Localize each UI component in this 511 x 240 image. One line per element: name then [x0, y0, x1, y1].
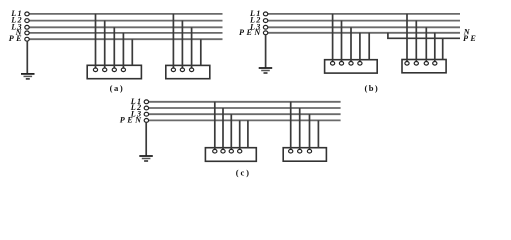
wire N tap to box2 (b): [434, 33, 436, 62]
wire PE (a): [29, 38, 222, 40]
terminal circle L2 (b): [263, 19, 267, 23]
load box 2 (b): [402, 60, 446, 73]
terminal circle box2 pin1 (c): [289, 149, 293, 153]
terminal circle box1 pin2 (b): [339, 62, 343, 66]
terminal circle L2 (a): [25, 19, 29, 23]
wire N tap to box1 (a): [122, 33, 124, 68]
wire PEN (PE) tap to box1 enclosure (b): [368, 33, 370, 60]
terminal circle box1 pin2 (a): [103, 68, 107, 72]
earthing conductor wire (b): [265, 35, 267, 68]
terminal circle L1 (b): [263, 12, 267, 16]
terminal circle box1 pin3 (a): [112, 68, 116, 72]
wire L2 tap to box1 (c): [222, 108, 224, 150]
terminal circle box1 pin3 (c): [229, 149, 233, 153]
terminal circle PEN (b): [263, 31, 267, 35]
wire PEN (N) tap to box1 (b): [359, 33, 361, 62]
load box 2 (c): [283, 148, 326, 162]
terminal circle box1 pin3 (b): [349, 62, 353, 66]
ground symbol (a): [21, 74, 35, 79]
terminal circle L3 (a): [25, 25, 29, 29]
wire L2 (b): [268, 20, 460, 22]
wire L2 (a): [29, 20, 222, 22]
wire L3 (b): [268, 26, 460, 28]
wire PE split from PEN (b): [388, 33, 460, 39]
wire L1 tap to box1 (c): [214, 102, 216, 150]
wire PE tap to box2 enclosure (b): [442, 38, 444, 59]
terminal circle L3 (c): [144, 112, 148, 116]
svg-text:(b): (b): [365, 83, 379, 93]
terminal circle N (a): [25, 31, 29, 35]
terminal circle box2 pin2 (c): [298, 149, 302, 153]
ground symbol (c): [139, 156, 153, 161]
svg-text:(a): (a): [110, 83, 124, 93]
svg-text:PE: PE: [463, 34, 476, 43]
terminal circle box2 pin1 (b): [405, 62, 409, 66]
wire L1 tap to box1 (a): [95, 14, 97, 68]
wire L1 tap to box1 (b): [332, 14, 334, 62]
terminal circle box2 pin3 (b): [424, 62, 428, 66]
load box 1 (b): [325, 60, 378, 73]
wire PE tap to box1 enclosure (a): [131, 39, 133, 65]
terminal circle box1 pin4 (c): [238, 149, 242, 153]
load box 1 (a): [87, 65, 141, 78]
wire L1 tap to box2 (a): [172, 14, 174, 68]
wire L3 tap to box1 (a): [113, 27, 115, 68]
wire L3 (c): [149, 113, 341, 115]
terminal circle L3 (b): [263, 25, 267, 29]
wire L3 tap to box2 (b): [425, 27, 427, 61]
terminal circle box2 pin3 (a): [190, 68, 194, 72]
wire L2 tap to box2 (a): [181, 21, 183, 68]
earthing conductor wire (c): [145, 122, 147, 156]
wire L3 (a): [29, 26, 222, 28]
terminal circle L1 (a): [25, 12, 29, 16]
wire L1 (c): [149, 101, 341, 103]
wire L2 tap to box1 (b): [341, 21, 343, 62]
wire PEN (N) tap to box1 (c): [239, 120, 241, 149]
svg-text:(c): (c): [236, 168, 250, 178]
wire L1 tap to box2 (b): [406, 14, 408, 61]
wire PEN (PE) tap to box1 enclosure (c): [247, 120, 249, 147]
svg-text:PEN: PEN: [239, 28, 261, 37]
terminal circle box1 pin1 (b): [331, 62, 335, 66]
load box 2 (a): [166, 65, 210, 78]
ground symbol (b): [259, 68, 273, 73]
terminal circle box2 pin4 (b): [433, 62, 437, 66]
terminal circle PE (a): [25, 37, 29, 41]
svg-text:PE: PE: [9, 34, 22, 43]
wire L2 tap to box2 (c): [299, 108, 301, 150]
terminal circle box2 pin2 (b): [414, 62, 418, 66]
wire L2 (c): [149, 107, 341, 109]
terminal circle L1 (c): [144, 100, 148, 104]
terminal circle box1 pin2 (c): [221, 149, 225, 153]
terminal circle box2 pin1 (a): [171, 68, 175, 72]
terminal circle box1 pin4 (a): [121, 68, 125, 72]
wire L1 (a): [29, 13, 222, 15]
wire L3 tap to box1 (b): [350, 27, 352, 61]
wire L2 tap to box2 (b): [415, 21, 417, 62]
wire L1 (b): [268, 13, 460, 15]
terminal circle box2 pin3 (c): [307, 149, 311, 153]
terminal circle box2 pin2 (a): [180, 68, 184, 72]
wire L1 tap to box2 (c): [290, 102, 292, 150]
wire L3 tap to box2 (a): [191, 27, 193, 68]
earthing conductor wire (a): [26, 41, 28, 74]
wire PEN (c): [149, 119, 341, 121]
wire L3 tap to box1 (c): [230, 114, 232, 149]
terminal circle box1 pin4 (b): [358, 62, 362, 66]
terminal circle L2 (c): [144, 106, 148, 110]
terminal circle box1 pin1 (a): [93, 68, 97, 72]
terminal circle PEN (c): [144, 119, 148, 123]
wire N (a): [29, 32, 222, 34]
wire L2 tap to box1 (a): [104, 21, 106, 68]
terminal circle box1 pin1 (c): [213, 149, 217, 153]
svg-text:PEN: PEN: [120, 116, 142, 125]
wire PEN continuing as N (b): [268, 32, 460, 34]
load box 1 (c): [205, 148, 256, 162]
wire PEN tap to box2 enclosure (c): [317, 120, 319, 147]
wire PE tap to box2 enclosure (a): [200, 39, 202, 65]
wire L3 tap to box2 (c): [309, 114, 311, 149]
